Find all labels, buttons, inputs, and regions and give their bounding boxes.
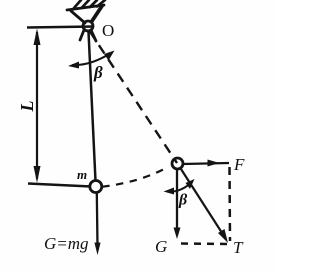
fixed support ceiling line xyxy=(67,5,104,10)
dimension extension line top xyxy=(27,27,94,28)
dashed swing arc path xyxy=(102,168,166,187)
svg-text:O: O xyxy=(102,21,114,40)
svg-text:G=mg: G=mg xyxy=(44,234,89,253)
dashed rectangle bottom side xyxy=(181,242,227,245)
svg-text:β: β xyxy=(93,63,103,82)
force F arrow xyxy=(183,160,229,167)
svg-text:β: β xyxy=(178,192,188,209)
svg-text:F: F xyxy=(233,155,245,174)
dashed rectangle right side xyxy=(228,167,231,241)
force G arrow at displaced ball xyxy=(174,169,181,239)
resultant T arrow xyxy=(180,168,228,244)
ball at displaced position xyxy=(172,158,183,169)
svg-text:G: G xyxy=(155,237,167,256)
fixed support bracket (triangle) xyxy=(71,6,102,41)
svg-text:m: m xyxy=(77,167,87,182)
dimension line L with arrows xyxy=(34,29,41,184)
weight vector G=mg at equilibrium xyxy=(94,193,100,255)
angle beta arc at top with arrows xyxy=(68,51,115,69)
pivot circle O xyxy=(83,21,93,31)
dashed string at angle beta xyxy=(90,31,178,163)
fixed support hatching xyxy=(74,0,105,8)
ball m (equilibrium) xyxy=(90,181,102,193)
string (vertical, equilibrium position) xyxy=(89,32,96,182)
dimension extension line bottom xyxy=(28,184,91,187)
angle beta arc at displaced ball xyxy=(164,179,195,195)
svg-text:L: L xyxy=(17,101,37,113)
svg-text:T: T xyxy=(233,238,244,257)
